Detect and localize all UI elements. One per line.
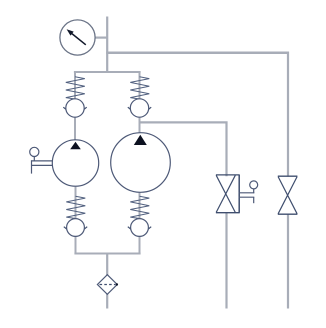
pressure gauge PG — [60, 20, 95, 55]
wire filter outlet — [106, 293, 108, 309]
wire left branch down to pump P1 — [74, 72, 76, 141]
wire outlet bus — [74, 253, 140, 255]
wire pump P2 outlet — [139, 192, 141, 255]
wire below valve V1 — [225, 213, 227, 309]
wire right riser lower — [287, 214, 289, 309]
wire right branch down to pump P2 — [139, 72, 141, 134]
wire gauge connection — [95, 36, 108, 38]
wire drop to filter F1 — [106, 254, 108, 277]
pump P1 — [52, 140, 98, 186]
wire top header — [106, 51, 289, 54]
shut-off valve V1 — [216, 175, 240, 213]
pump P1 shaft and knob — [30, 147, 53, 173]
check valve CV4 ball and seat — [128, 219, 151, 237]
shut-off valve V2 — [278, 176, 298, 214]
pump P2 — [111, 133, 171, 193]
wire main vertical riser — [106, 17, 108, 74]
check valve CV4 spring — [130, 196, 149, 218]
wire mid branch to valve V1 — [140, 121, 228, 176]
wire inlet bus — [74, 71, 141, 73]
wire right riser upper — [287, 52, 289, 177]
check valve CV3 ball and seat — [64, 219, 87, 237]
check valve CV2 spring — [130, 77, 149, 99]
check valve CV2 ball and seat — [128, 99, 151, 117]
valve V1 handle — [239, 181, 258, 203]
check valve CV1 spring — [66, 77, 85, 99]
filter F1 — [97, 275, 118, 295]
wire pump P1 outlet — [75, 186, 77, 255]
check valve CV3 spring — [66, 196, 85, 218]
check valve CV1 ball and seat — [63, 99, 86, 117]
